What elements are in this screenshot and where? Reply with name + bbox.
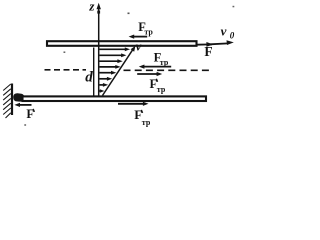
svg-text:тр: тр (144, 27, 153, 36)
svg-text:v: v (221, 23, 227, 38)
d dimension line (93, 48, 95, 97)
velocity v0 arrow (210, 42, 228, 45)
profile arrow 5 (100, 72, 112, 74)
wall (11, 84, 13, 116)
dashed mid-line right (124, 69, 210, 71)
svg-text:тр: тр (160, 58, 169, 67)
profile arrow 6 (100, 78, 108, 80)
svg-text:тр: тр (142, 118, 151, 127)
profile arrow 2 (100, 54, 122, 56)
profile arrow 4 (100, 66, 117, 68)
profile arrow 3 (100, 60, 119, 62)
mid reaction arrow on lower layer (F'_tr, rightwards) (137, 73, 157, 75)
friction force arrow on top plate (F_tr) (134, 36, 148, 38)
dashed mid-line left (45, 69, 87, 71)
clamp blob (13, 93, 24, 101)
z axis (98, 7, 100, 97)
bottom plate (23, 96, 207, 101)
top plate (47, 41, 197, 46)
scan noise dots (128, 13, 130, 15)
reaction arrow under bottom plate (F'_tr, rightwards) (118, 103, 144, 105)
profile arrow 1 (100, 48, 126, 50)
svg-text:F: F (204, 44, 212, 59)
svg-text:z: z (88, 0, 95, 14)
velocity profile hypotenuse (103, 48, 134, 95)
svg-text:0: 0 (230, 31, 235, 41)
mid friction arrow on upper layer (F_tr, leftwards) (144, 66, 171, 68)
svg-text:тр: тр (157, 85, 166, 94)
svg-text:d: d (85, 70, 93, 86)
profile arrow 7 (100, 84, 104, 86)
svg-text:v: v (136, 38, 142, 53)
wall reaction arrow F' (leftwards) (20, 104, 32, 106)
wall hatching (3, 84, 11, 118)
profile arrow 8 (99, 90, 102, 92)
applied force arrow F on top plate (197, 43, 212, 45)
velocity profile arrow v (top of hypotenuse) (131, 46, 136, 52)
